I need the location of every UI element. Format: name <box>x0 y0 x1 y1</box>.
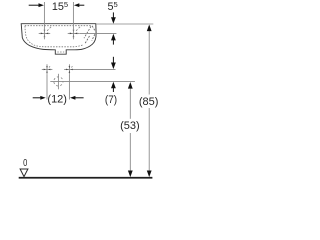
tap hole right mark arrows <box>70 30 77 37</box>
svg-text:55: 55 <box>108 0 118 13</box>
washbasin inner bowl right slant hidden edge (dashed) <box>85 36 90 44</box>
washbasin inner rim top hidden edge (dashed) <box>25 25 92 27</box>
tap hole right centerline horizontal <box>68 32 80 34</box>
wall bolt hole right 45deg dash <box>71 65 73 67</box>
rim thickness hidden edge (dashed) <box>92 34 95 40</box>
svg-text:(12): (12) <box>47 94 67 106</box>
dimension 15.5 right arrow <box>79 4 84 6</box>
tap hole left mark arrows <box>41 30 48 37</box>
dimension 15.5 left extension line <box>43 2 45 39</box>
dimension 7 lower arrow <box>112 88 114 92</box>
drain outlet centerline vertical <box>57 74 59 90</box>
dimension 5.5 upper arrow <box>112 12 114 17</box>
svg-text:(85): (85) <box>139 96 159 108</box>
rim corner hidden edge (dashed flare) <box>92 26 95 31</box>
floor line <box>19 177 153 179</box>
wall bolt hole right cross <box>68 64 70 75</box>
dimension 7 upper arrow <box>112 57 114 63</box>
dimension 15.5 right extension line <box>72 2 74 39</box>
washbasin inner bowl left and bottom hidden edge (dashed) <box>25 26 84 47</box>
tap hole level line <box>80 32 117 34</box>
wall bolt hole left 45deg dash <box>49 65 51 67</box>
dimension 12 right extension line <box>68 75 70 100</box>
rim top level line <box>96 23 153 25</box>
dimension 53 top arrow <box>128 82 133 89</box>
dimension 12 left extension line <box>46 75 48 100</box>
wall bolt hole left cross <box>46 64 48 75</box>
tap hole right 45deg dashes <box>76 27 80 31</box>
svg-text:155: 155 <box>52 0 68 13</box>
bolt hole level line <box>64 68 115 70</box>
svg-text:0: 0 <box>23 158 28 169</box>
dimension 15.5 left arrow <box>29 4 39 6</box>
dimension 53 vertical line upper <box>129 88 131 119</box>
tap hole left 45deg dashes <box>47 27 51 31</box>
overflow channel hidden edge (dashed diagonal) <box>84 26 91 38</box>
dimension 12 left arrow <box>33 97 41 99</box>
dimension 12 right arrow <box>75 97 84 99</box>
drain outlet dashed circle <box>54 77 63 86</box>
floor level triangle symbol <box>20 169 28 177</box>
dimension 53 vertical line lower <box>129 133 131 171</box>
drain outlet centerline horizontal <box>50 80 135 82</box>
drain tab hidden edge (dashed) <box>57 51 64 53</box>
dimension 85 vertical line lower <box>148 108 150 171</box>
tap hole left centerline horizontal <box>39 32 51 34</box>
washbasin outer outline <box>21 24 96 55</box>
dimension 85 vertical line upper <box>148 30 150 95</box>
dimension 85 top arrow <box>147 25 152 32</box>
svg-text:(7): (7) <box>105 94 117 106</box>
dimension 85 bottom arrow <box>147 171 152 178</box>
dimension 5.5 lower arrow <box>112 40 114 45</box>
svg-text:(53): (53) <box>120 120 140 132</box>
dimension 53 bottom arrow <box>128 171 133 178</box>
